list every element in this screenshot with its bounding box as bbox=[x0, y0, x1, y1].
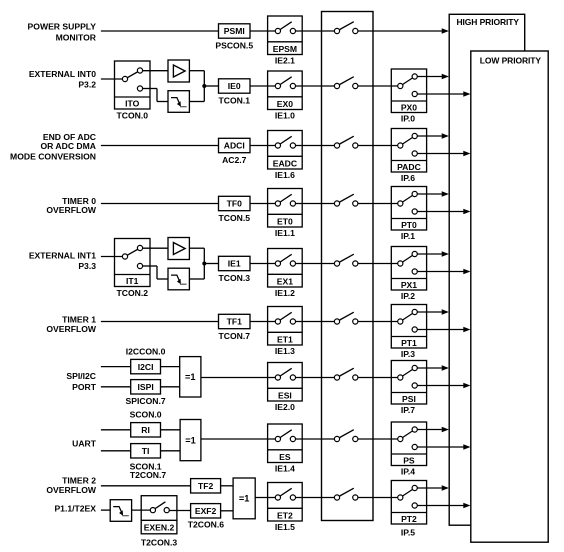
wire PT1 to low priority bbox=[417, 329, 464, 331]
switch contacts ET2 bbox=[275, 495, 280, 500]
svg-text:POWER SUPPLY: POWER SUPPLY bbox=[28, 22, 97, 32]
priority select PSI bbox=[391, 361, 426, 405]
wire PADC to low priority bbox=[417, 153, 464, 155]
interrupt enable EPSM bbox=[268, 16, 303, 55]
svg-text:TCON.1: TCON.1 bbox=[218, 95, 250, 105]
wire EADC to EA switch bbox=[295, 145, 337, 147]
type select switch box ITO bbox=[115, 61, 151, 109]
priority select PT2 bbox=[391, 481, 426, 525]
wire T0 input bbox=[101, 203, 220, 205]
wire PT0 to high priority bbox=[417, 193, 442, 195]
svg-text:ES: ES bbox=[279, 452, 291, 462]
svg-text:UART: UART bbox=[72, 438, 97, 448]
interrupt enable ES bbox=[268, 424, 303, 463]
wire PX0 to low priority bbox=[417, 93, 464, 95]
global enable switch EA row3 bbox=[337, 136, 354, 145]
svg-text:EXTERNAL INT1: EXTERNAL INT1 bbox=[29, 250, 96, 260]
svg-text:TF0: TF0 bbox=[227, 199, 242, 209]
svg-text:IE0: IE0 bbox=[228, 81, 241, 91]
svg-text:PT1: PT1 bbox=[401, 338, 417, 348]
svg-text:TIMER 2: TIMER 2 bbox=[62, 475, 96, 485]
wire EPSM to EA switch bbox=[295, 30, 337, 32]
svg-text:ET2: ET2 bbox=[277, 510, 293, 520]
svg-text:IE1.1: IE1.1 bbox=[275, 228, 295, 238]
svg-text:TCON.7: TCON.7 bbox=[218, 331, 250, 341]
switch lever ES bbox=[278, 430, 292, 439]
svg-text:IT1: IT1 bbox=[126, 276, 139, 286]
interrupt enable EX1 bbox=[268, 249, 303, 288]
wire to IE1 bbox=[204, 263, 219, 265]
svg-text:IE2.1: IE2.1 bbox=[275, 56, 295, 66]
svg-text:PSCON.5: PSCON.5 bbox=[215, 40, 253, 50]
wire PT2 to high priority bbox=[417, 487, 442, 489]
global enable switch EA row7 bbox=[337, 368, 354, 377]
priority lever PS bbox=[400, 430, 414, 440]
flag bit ISPI bbox=[131, 380, 161, 394]
svg-text:TCON.5: TCON.5 bbox=[218, 213, 250, 223]
switch lever ET2 bbox=[278, 488, 292, 497]
wire I2CI to OR gate bbox=[161, 366, 180, 368]
svg-text:IE1.5: IE1.5 bbox=[275, 522, 295, 532]
wire PS to high priority bbox=[417, 429, 442, 431]
switch contacts ET0 bbox=[275, 201, 280, 206]
svg-text:ET1: ET1 bbox=[277, 334, 293, 344]
priority lever PADC bbox=[400, 136, 414, 146]
wire input IE0 bbox=[101, 78, 125, 80]
wire ET1 to EA switch bbox=[295, 321, 337, 323]
svg-text:IP.7: IP.7 bbox=[401, 405, 415, 415]
priority select PADC bbox=[391, 129, 426, 173]
priority contacts PT0 bbox=[398, 201, 403, 206]
wire EA to PT0 bbox=[358, 203, 401, 205]
wire to buffer bbox=[142, 247, 168, 249]
wire PX1 to high priority bbox=[417, 253, 442, 255]
priority lever PX1 bbox=[400, 254, 414, 264]
switch lever EADC bbox=[278, 136, 292, 145]
svg-text:EADC: EADC bbox=[273, 158, 297, 168]
wire TI input bbox=[101, 450, 132, 452]
svg-text:SCON.0: SCON.0 bbox=[130, 410, 162, 420]
wire ET2 to EA switch bbox=[295, 497, 337, 499]
svg-text:TCON.2: TCON.2 bbox=[116, 288, 148, 298]
svg-text:IE1.0: IE1.0 bbox=[275, 111, 295, 121]
svg-text:ADCI: ADCI bbox=[224, 141, 245, 151]
switch contacts EADC bbox=[275, 143, 280, 148]
svg-text:IP.0: IP.0 bbox=[401, 113, 415, 123]
flag bit TI bbox=[131, 444, 161, 458]
priority select PX0 bbox=[391, 69, 426, 113]
svg-text:PX1: PX1 bbox=[401, 280, 417, 290]
svg-text:=1: =1 bbox=[239, 494, 249, 504]
svg-text:IE1: IE1 bbox=[228, 259, 241, 269]
interrupt enable ESI bbox=[268, 363, 303, 402]
svg-text:P1.1/T2EX: P1.1/T2EX bbox=[54, 503, 96, 513]
priority select PX1 bbox=[391, 247, 426, 291]
priority lever PT1 bbox=[400, 312, 414, 322]
svg-text:OVERFLOW: OVERFLOW bbox=[46, 205, 97, 215]
wire TF0 to ET0 bbox=[250, 203, 278, 205]
svg-text:IE2.0: IE2.0 bbox=[275, 402, 295, 412]
svg-text:TCON.3: TCON.3 bbox=[218, 273, 250, 283]
wire EX1 to EA switch bbox=[295, 263, 337, 265]
priority contacts PT1 bbox=[398, 319, 403, 324]
svg-text:TF2: TF2 bbox=[198, 481, 213, 491]
global interrupt enable box EA bbox=[322, 12, 374, 521]
HIGH PRIORITY interrupt block bbox=[449, 14, 525, 525]
wire PSI to high priority bbox=[417, 367, 442, 369]
svg-text:EXEN.2: EXEN.2 bbox=[144, 523, 175, 533]
wire EA to PT2 bbox=[358, 497, 401, 499]
wire ADC input bbox=[101, 145, 220, 147]
svg-text:I2CCON.0: I2CCON.0 bbox=[126, 346, 166, 356]
wire PSM input bbox=[101, 30, 220, 32]
switch lever EPSM bbox=[278, 22, 292, 31]
wire buffer output bbox=[189, 70, 204, 72]
wire ADCI to EADC bbox=[250, 145, 278, 147]
level-trigger buffer ITO bbox=[168, 60, 189, 82]
wire EA to PX1 bbox=[358, 263, 401, 265]
priority lever PT2 bbox=[400, 488, 414, 498]
junction node IE1 bbox=[202, 262, 206, 266]
switch contacts IT1 bbox=[122, 254, 127, 259]
wire edge detector output bbox=[189, 101, 204, 103]
svg-text:IP.4: IP.4 bbox=[401, 466, 415, 476]
flag bit EXF2 bbox=[191, 504, 221, 518]
wire EA to PS bbox=[358, 438, 401, 440]
edge-trigger detector T2EX bbox=[110, 500, 131, 522]
svg-text:HIGH PRIORITY: HIGH PRIORITY bbox=[457, 17, 520, 27]
svg-text:IE1.3: IE1.3 bbox=[275, 346, 295, 356]
wire EX0 to EA switch bbox=[295, 85, 337, 87]
priority contacts PADC bbox=[398, 143, 403, 148]
svg-text:TF1: TF1 bbox=[227, 317, 242, 327]
wire OR to ESI bbox=[201, 377, 278, 379]
wire edge detector to EXEN2 switch bbox=[132, 509, 153, 511]
svg-text:EXF2: EXF2 bbox=[195, 506, 217, 516]
svg-text:OVERFLOW: OVERFLOW bbox=[46, 485, 97, 495]
switch lever EX0 bbox=[278, 77, 292, 86]
wire OR to ET2 bbox=[255, 497, 278, 499]
OR gate UART bbox=[180, 420, 201, 461]
svg-text:IP.6: IP.6 bbox=[401, 173, 415, 183]
flag bit IE0 bbox=[219, 79, 251, 93]
switch contacts ESI bbox=[275, 375, 280, 380]
svg-text:PORT: PORT bbox=[72, 382, 97, 392]
wire edge detector output bbox=[189, 278, 204, 280]
svg-text:EXTERNAL INT0: EXTERNAL INT0 bbox=[29, 69, 96, 79]
svg-text:MODE CONVERSION: MODE CONVERSION bbox=[10, 151, 96, 161]
wire EA to PX0 bbox=[358, 85, 401, 87]
svg-text:PS: PS bbox=[403, 455, 415, 465]
wire ESI to EA switch bbox=[295, 377, 337, 379]
svg-text:PT2: PT2 bbox=[401, 514, 417, 524]
wire ISPI to OR gate bbox=[161, 386, 180, 388]
svg-text:AC2.7: AC2.7 bbox=[222, 155, 247, 165]
wire IE1 to EX1 bbox=[250, 263, 278, 265]
flag bit TF2 bbox=[191, 479, 221, 493]
global enable switch EA row1 bbox=[337, 22, 354, 31]
wire ET0 to EA switch bbox=[295, 203, 337, 205]
svg-text:P3.2: P3.2 bbox=[78, 80, 96, 90]
svg-text:T2CON.3: T2CON.3 bbox=[141, 538, 178, 548]
OR gate T2 bbox=[233, 478, 255, 519]
level-trigger buffer IT1 bbox=[168, 238, 189, 260]
svg-text:PX0: PX0 bbox=[401, 102, 417, 112]
wire EA to PSI bbox=[358, 377, 401, 379]
flag bit TF1 bbox=[219, 314, 251, 328]
priority contacts PX1 bbox=[398, 261, 403, 266]
wire PSMI to EPSM bbox=[250, 30, 278, 32]
wire T2EX input bbox=[101, 509, 110, 511]
svg-text:TIMER 1: TIMER 1 bbox=[62, 314, 96, 324]
wire OR to ES bbox=[201, 438, 278, 440]
wire PT1 to high priority bbox=[417, 311, 442, 313]
wire TI to OR gate bbox=[161, 450, 181, 452]
wire to edge detector bbox=[142, 265, 157, 267]
svg-text:P3.3: P3.3 bbox=[78, 261, 96, 271]
svg-text:IE1.4: IE1.4 bbox=[275, 464, 295, 474]
wire TF2 to OR gate bbox=[221, 485, 234, 487]
flag bit IE1 bbox=[219, 256, 251, 270]
wire PT2 to low priority bbox=[417, 505, 464, 507]
edge-trigger detector IT1 bbox=[168, 268, 189, 290]
interrupt enable EX0 bbox=[268, 71, 303, 110]
switch lever IT1 bbox=[125, 248, 140, 257]
wire ISPI input bbox=[101, 386, 132, 388]
interrupt enable ET1 bbox=[268, 307, 303, 346]
wire TF2 input bbox=[101, 485, 192, 487]
global enable switch EA row6 bbox=[337, 312, 354, 321]
switch lever ITO bbox=[125, 71, 140, 80]
priority lever PT0 bbox=[400, 194, 414, 204]
svg-text:ISPI: ISPI bbox=[137, 382, 153, 392]
priority contacts PT2 bbox=[398, 495, 403, 500]
wire input IE1 bbox=[101, 256, 125, 258]
svg-text:OVERFLOW: OVERFLOW bbox=[46, 324, 97, 334]
priority select PT1 bbox=[391, 305, 426, 349]
switch contacts ES bbox=[275, 436, 280, 441]
svg-text:I2CI: I2CI bbox=[138, 362, 154, 372]
svg-text:IP.2: IP.2 bbox=[401, 291, 415, 301]
svg-text:T2CON.7: T2CON.7 bbox=[130, 470, 167, 480]
svg-text:=1: =1 bbox=[185, 372, 195, 382]
switch contacts ET1 bbox=[275, 319, 280, 324]
interrupt enable EADC bbox=[268, 131, 303, 170]
wire EA to PADC bbox=[358, 145, 401, 147]
switch contacts EPSM bbox=[275, 28, 280, 33]
svg-text:TCON.0: TCON.0 bbox=[116, 111, 148, 121]
global enable switch EA row9 bbox=[337, 488, 354, 497]
svg-text:IE1.2: IE1.2 bbox=[275, 288, 295, 298]
svg-text:IP.5: IP.5 bbox=[401, 527, 415, 537]
junction node IE0 bbox=[202, 84, 206, 88]
switch lever EXEN.2 bbox=[153, 502, 166, 510]
type select switch box IT1 bbox=[115, 239, 151, 287]
svg-text:ET0: ET0 bbox=[277, 216, 293, 226]
flag bit PSMI bbox=[219, 24, 251, 38]
global enable switch EA row2 bbox=[337, 77, 354, 86]
svg-text:MONITOR: MONITOR bbox=[56, 32, 97, 42]
flag bit TF0 bbox=[219, 196, 251, 210]
wire I2CI input bbox=[101, 366, 132, 368]
wire IE0 to EX0 bbox=[250, 85, 278, 87]
wire RI input bbox=[101, 429, 132, 431]
svg-text:EPSM: EPSM bbox=[273, 44, 297, 54]
wire PS to low priority bbox=[417, 446, 464, 448]
svg-text:ESI: ESI bbox=[278, 390, 292, 400]
svg-text:PSMI: PSMI bbox=[224, 26, 245, 36]
wire T1 input bbox=[101, 321, 220, 323]
wire PX0 to high priority bbox=[417, 76, 442, 78]
svg-text:T2CON.6: T2CON.6 bbox=[188, 519, 225, 529]
LOW PRIORITY interrupt block bbox=[471, 51, 548, 542]
global enable switch EA row5 bbox=[337, 254, 354, 263]
wire PSM to high priority bbox=[358, 30, 442, 32]
priority contacts PS bbox=[398, 436, 403, 441]
svg-text:EX0: EX0 bbox=[277, 99, 293, 109]
svg-text:IP.1: IP.1 bbox=[401, 231, 415, 241]
switch contacts EX0 bbox=[275, 83, 280, 88]
wire PSI to low priority bbox=[417, 385, 464, 387]
svg-text:=1: =1 bbox=[185, 435, 195, 445]
priority contacts PSI bbox=[398, 375, 403, 380]
priority select PT0 bbox=[391, 187, 426, 231]
wire to buffer bbox=[142, 70, 168, 72]
flag bit I2CI bbox=[131, 359, 161, 373]
svg-text:LOW PRIORITY: LOW PRIORITY bbox=[480, 56, 542, 66]
wire PT0 to low priority bbox=[417, 211, 464, 213]
svg-text:ITO: ITO bbox=[125, 99, 139, 109]
switch lever EX1 bbox=[278, 254, 292, 263]
wire EXEN2 to EXF2 bbox=[169, 510, 192, 512]
svg-text:EX1: EX1 bbox=[277, 276, 293, 286]
priority contacts PX0 bbox=[398, 83, 403, 88]
svg-text:PADC: PADC bbox=[397, 162, 421, 172]
wire to edge detector bbox=[142, 88, 157, 90]
wire TF1 to ET1 bbox=[250, 321, 278, 323]
OR gate SPI bbox=[180, 357, 201, 397]
switch lever ESI bbox=[278, 368, 292, 377]
interrupt enable ET2 bbox=[268, 483, 303, 522]
wire ES to EA switch bbox=[295, 438, 337, 440]
edge-trigger detector ITO bbox=[168, 91, 189, 113]
priority lever PSI bbox=[400, 368, 414, 378]
svg-text:PT0: PT0 bbox=[401, 220, 417, 230]
wire PADC to high priority bbox=[417, 135, 442, 137]
svg-text:SPI/I2C: SPI/I2C bbox=[66, 371, 96, 381]
wire buffer output bbox=[189, 247, 204, 249]
svg-text:TI: TI bbox=[142, 446, 150, 456]
wire EA to PT1 bbox=[358, 321, 401, 323]
flag bit ADCI bbox=[219, 138, 251, 152]
switch contacts ITO bbox=[122, 76, 127, 81]
switch contacts EXEN.2 bbox=[150, 508, 155, 513]
global enable switch EA row4 bbox=[337, 194, 354, 203]
svg-text:IE1.6: IE1.6 bbox=[275, 170, 295, 180]
global enable switch EA row8 bbox=[337, 430, 354, 439]
wire RI to OR gate bbox=[161, 429, 181, 431]
priority lever PX0 bbox=[400, 77, 414, 87]
count enable switch box EXEN.2 bbox=[141, 496, 177, 534]
svg-text:PSI: PSI bbox=[402, 394, 416, 404]
switch lever ET1 bbox=[278, 312, 292, 321]
switch contacts EX1 bbox=[275, 261, 280, 266]
svg-text:OR ADC DMA: OR ADC DMA bbox=[40, 141, 96, 151]
svg-text:RI: RI bbox=[141, 425, 150, 435]
wire EXF2 to OR gate bbox=[221, 510, 234, 512]
interrupt enable ET0 bbox=[268, 189, 303, 228]
svg-text:IP.3: IP.3 bbox=[401, 349, 415, 359]
svg-text:SPICON.7: SPICON.7 bbox=[126, 396, 166, 406]
wire PX1 to low priority bbox=[417, 271, 464, 273]
flag bit RI bbox=[131, 423, 161, 437]
switch lever ET0 bbox=[278, 194, 292, 203]
wire to IE0 bbox=[204, 85, 219, 87]
priority select PS bbox=[391, 422, 426, 466]
